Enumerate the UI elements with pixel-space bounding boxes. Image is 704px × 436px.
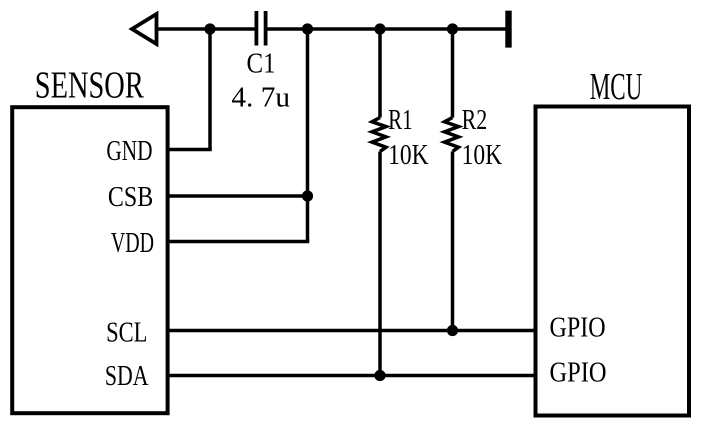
- svg-text:CSB: CSB: [108, 181, 153, 213]
- svg-text:R2: R2: [462, 104, 488, 136]
- node junction dot (CSB on vertical): [302, 190, 313, 201]
- node junction dot (R2 on SCL): [447, 325, 458, 336]
- terminal bar (top rail right end): [505, 11, 511, 48]
- svg-text:C1: C1: [247, 48, 276, 80]
- wire CSB/VDD vertical (rail down to VDD level): [306, 29, 310, 242]
- power arrow symbol: [132, 14, 157, 44]
- wire top rail left segment (arrow to capacitor C1 left plate): [158, 27, 255, 31]
- svg-text:GND: GND: [106, 135, 152, 167]
- wire SCL horizontal (sensor SCL pin to MCU GPIO pin): [168, 329, 536, 333]
- node junction dot (CSB/VDD vertical on rail): [302, 23, 313, 34]
- wire GND horizontal (sensor GND pin to vertical): [168, 148, 212, 152]
- svg-text:10K: 10K: [388, 139, 429, 171]
- svg-text:SCL: SCL: [106, 316, 147, 348]
- svg-text:GPIO: GPIO: [550, 356, 607, 388]
- svg-text:SDA: SDA: [105, 360, 149, 392]
- svg-text:GPIO: GPIO: [550, 312, 606, 344]
- resistor R2: [445, 29, 459, 331]
- svg-text:10K: 10K: [462, 139, 503, 171]
- wire top rail right segment (capacitor C1 right plate to terminal bar): [267, 27, 506, 31]
- wire GND vertical (rail down to GND pin level): [208, 29, 212, 150]
- wire CSB horizontal (sensor CSB pin to node): [168, 194, 308, 198]
- svg-text:SENSOR: SENSOR: [35, 65, 144, 107]
- MCU block U2: [536, 107, 690, 416]
- svg-text:4. 7u: 4. 7u: [231, 82, 290, 114]
- node junction dot (R1 on SDA): [374, 370, 385, 381]
- node junction dot (GND vertical on rail): [204, 23, 215, 34]
- svg-text:R1: R1: [388, 104, 413, 136]
- svg-text:MCU: MCU: [590, 66, 643, 108]
- node junction dot (R1 vertical on rail): [374, 23, 385, 34]
- wire SDA horizontal (sensor SDA pin to MCU GPIO pin): [168, 374, 536, 378]
- svg-text:VDD: VDD: [111, 227, 154, 259]
- resistor R1: [372, 29, 386, 376]
- node junction dot (R2 vertical on rail): [447, 23, 458, 34]
- capacitor C1: [256, 11, 265, 46]
- sensor block U1: [12, 107, 167, 413]
- wire VDD horizontal (sensor VDD pin to vertical): [168, 240, 310, 244]
